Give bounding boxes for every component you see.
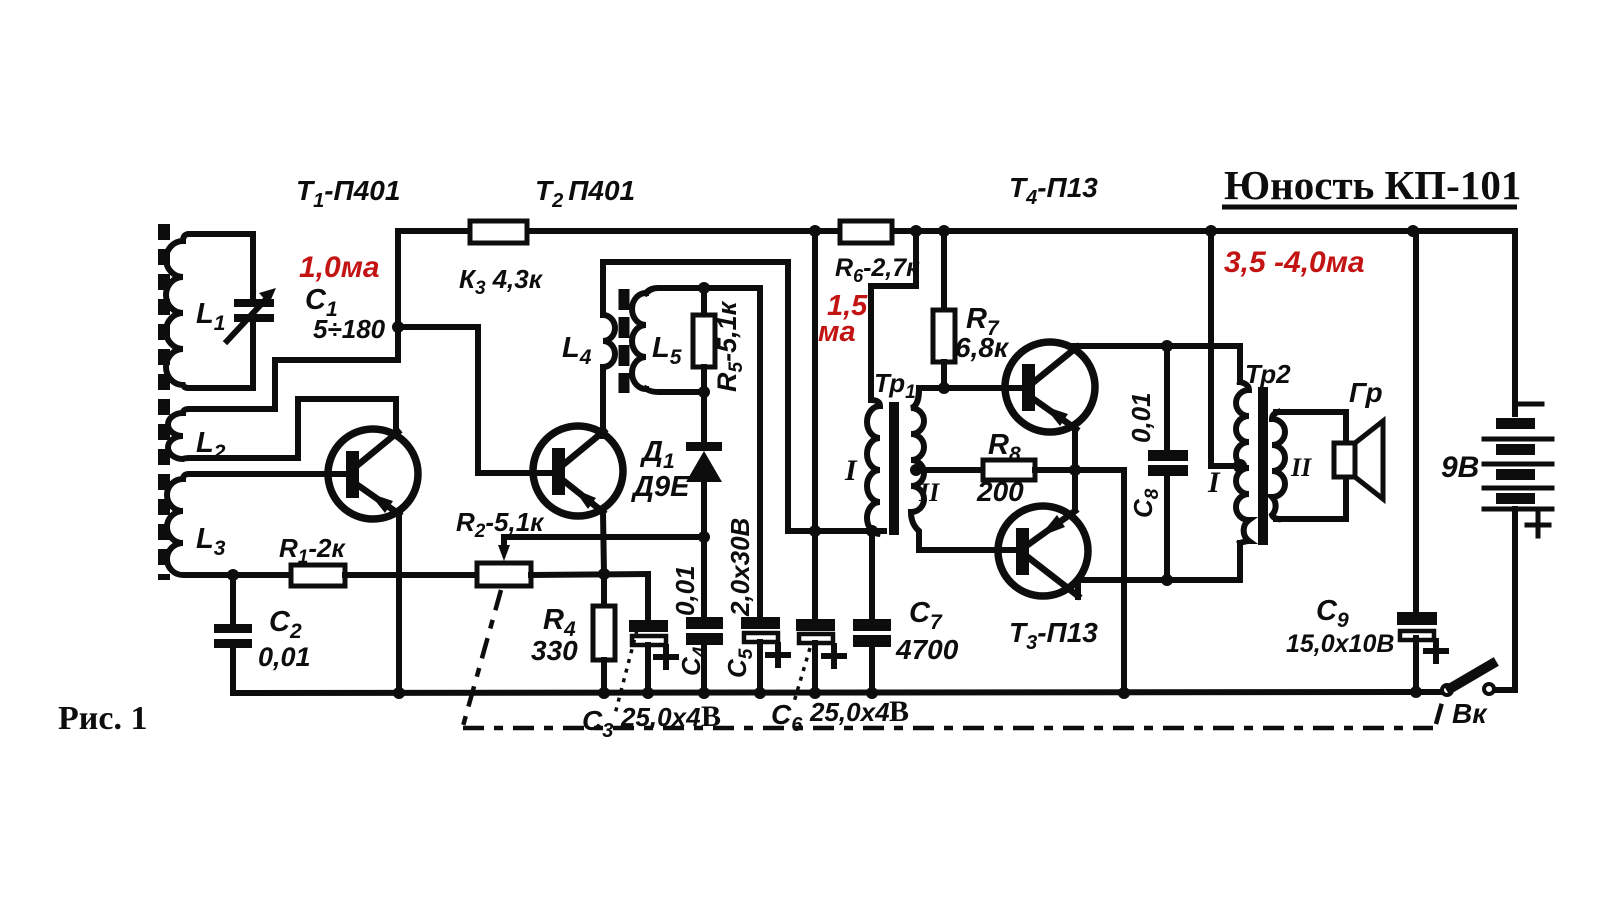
svg-text:200: 200 [976,476,1024,507]
svg-text:2,0х30В: 2,0х30В [725,518,755,617]
battery 9V [1484,404,1552,690]
coil L4 [603,262,788,531]
svg-text:R2-5,1к: R2-5,1к [456,507,545,542]
transformer Tp1 secondary winding II [911,390,924,550]
capacitor C3 (electrolytic) [629,620,676,699]
node junction rail / C6 branch [809,225,821,237]
coil L3 [167,474,346,575]
svg-text:R5-5,1к: R5-5,1к [712,300,747,392]
transformer Tp1 core [889,402,899,535]
wire T2 base feed [398,327,552,473]
wire battery negative lead [1512,231,1518,414]
wire R6 right to Tp1 primary [871,231,916,400]
svg-text:I: I [1207,466,1221,499]
svg-text:25,0х4: 25,0х4 [620,702,701,732]
wire C3 drop [645,574,651,621]
wire T2 collector riser [600,368,606,436]
wire emitters node to ground bus [1121,470,1127,693]
resistor R8 [910,460,1124,480]
capacitor C1 (variable) [227,288,276,341]
transistor T3 [998,506,1088,596]
wire T4 collector to Tp2 primary top [1074,346,1240,382]
diode D1 [686,392,722,618]
wire T3 emitter riser [1072,470,1078,509]
wire T1 collector [393,399,399,434]
IF transformer core (dashed) [619,289,630,393]
svg-text:0,01: 0,01 [1126,392,1156,443]
resistor R1 [291,565,477,586]
capacitor C7 [853,531,891,699]
wire top supply rail [398,228,1515,234]
potentiometer R2 [477,537,704,586]
transformer Tp2 secondary winding II [1272,412,1285,519]
capacitor C9 (electrolytic) [1397,231,1446,698]
node junction R2 / T2 emitter / R4 [598,568,610,580]
resistor R5 [693,282,715,398]
switch Vk [1442,664,1494,695]
svg-text:I: I [844,454,858,487]
svg-text:Вк: Вк [1452,698,1488,729]
capacitor C5 (electrolytic) [741,617,788,699]
resistor R6 [840,221,892,243]
wire C5 riser [757,288,763,618]
svg-text:В: В [889,695,909,728]
coil L5 [632,288,760,392]
svg-text:II: II [1290,453,1312,482]
svg-text:3,5 -4,0ма: 3,5 -4,0ма [1224,246,1365,279]
capacitor C2 [214,575,252,693]
transistor T4 [1005,342,1095,432]
wire Tp2 II to speaker [1276,412,1346,444]
wire T1 emitter to ground bus [396,514,402,693]
wire Tp1 II bottom to T3 base [919,547,1016,553]
resistor R7 [933,225,955,394]
svg-text:ма: ма [818,316,856,348]
wire rail to Tp2 centre tap [1211,231,1237,466]
capacitor C8 [1148,346,1188,580]
svg-text:1,0ма: 1,0ма [299,251,380,284]
mechanical link R2 wiper to switch (dash-dot) [463,590,1443,728]
coil L2 [168,399,396,459]
svg-text:Юность КП-101: Юность КП-101 [1224,162,1521,208]
wire T2 emitter drop [603,513,604,574]
svg-text:0,01: 0,01 [258,642,311,672]
node junction T2 base tap [392,321,404,333]
resistor R4 [593,574,615,699]
wire Tp1 II top to T4 base [919,388,1022,390]
wire T1 collector riser / L2 top staircase [275,231,398,409]
svg-text:II: II [918,478,940,507]
svg-text:В: В [701,700,721,733]
wire T4 emitter drop [1072,429,1078,470]
svg-text:Рис. 1: Рис. 1 [58,700,147,737]
svg-text:4700: 4700 [895,634,959,665]
svg-text:9В: 9В [1441,451,1479,484]
capacitor C6 (electrolytic) [796,619,844,699]
svg-text:R6-2,7к: R6-2,7к [835,254,920,286]
svg-text:5÷180: 5÷180 [313,314,386,344]
coil L1 [166,234,253,388]
svg-text:25,0х4: 25,0х4 [809,697,890,727]
resistor R3 [470,221,527,243]
transformer Tp1 primary winding I [867,400,880,534]
node junction rail / C9 [1407,225,1419,237]
svg-text:Гр: Гр [1349,377,1383,408]
wire decoupled node B vertical [812,231,818,620]
label leader C3 [615,630,637,714]
node junction L3 / C2 [227,569,239,581]
svg-text:Д9Е: Д9Е [630,471,691,503]
wire T3 collector to Tp2 primary bottom [1078,543,1240,597]
transistor T1 [328,429,418,519]
transformer Tp2 primary winding I [1236,382,1249,543]
svg-text:15,0х10В: 15,0х10В [1286,630,1394,658]
transistor T2 [533,426,623,516]
wire node B horizontal [788,528,884,534]
loudspeaker Gr [1334,421,1383,499]
svg-text:R1-2к: R1-2к [279,533,346,568]
ferrite rod (dashed) [158,224,170,580]
svg-text:330: 330 [531,635,578,666]
label leader C6 [794,648,810,702]
svg-text:К34,3к: К34,3к [459,264,544,299]
svg-text:6,8к: 6,8к [955,332,1010,363]
transformer Tp2 core [1258,387,1268,545]
ground bus wire [233,692,1443,693]
capacitor C4 [686,617,723,699]
svg-text:Тр2: Тр2 [1245,359,1291,389]
svg-text:0,01: 0,01 [670,565,700,616]
